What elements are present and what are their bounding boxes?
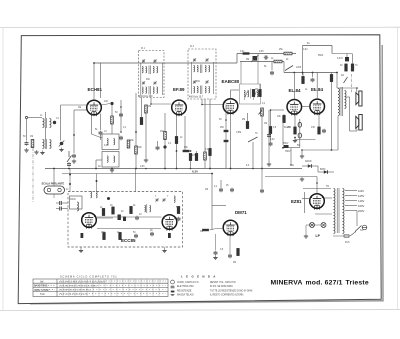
legend text rows bbox=[177, 281, 252, 297]
wire FM gnd left bbox=[80, 247, 82, 249]
resistor tone v1 bbox=[259, 89, 262, 96]
PT right winding bbox=[343, 189, 345, 198]
ground gang bbox=[59, 148, 63, 152]
capacitor under DM71 b bbox=[228, 254, 232, 259]
wire dipole join bbox=[63, 202, 68, 204]
wire EF89 pin drop bbox=[184, 116, 186, 151]
ground cath1 bbox=[293, 139, 297, 143]
tuning gang cap dark bbox=[60, 142, 64, 146]
table column ticks bbox=[63, 279, 159, 297]
dial scale stadium bbox=[44, 186, 65, 194]
tube EL84 second bbox=[310, 99, 325, 115]
OT core bbox=[340, 87, 342, 116]
wire dm caps bbox=[220, 180, 222, 188]
capacitor det 2 bbox=[224, 140, 229, 142]
wire IF1 foot bbox=[157, 141, 159, 146]
capacitor el84 g dark bbox=[267, 133, 271, 138]
capacitor EL84 cath 2 bbox=[322, 129, 326, 134]
det trimmer diag 1 bbox=[244, 91, 248, 100]
det trimmer diag 2 bbox=[253, 91, 257, 100]
IF2 core top bbox=[200, 65, 202, 74]
tube DM71 bbox=[223, 220, 238, 236]
wire FM gnd right bbox=[164, 247, 166, 249]
wire grid res bbox=[210, 229, 224, 231]
IF1 top coils bbox=[142, 66, 143, 73]
FM core bbox=[146, 204, 148, 213]
IF1 trimmer right bbox=[153, 59, 156, 63]
wire EF89 cath down bbox=[164, 113, 166, 169]
valve data table frame bbox=[33, 279, 168, 297]
OT secondary winding bbox=[345, 91, 347, 100]
svg-text:1M: 1M bbox=[200, 231, 203, 233]
wire diode step bbox=[317, 166, 319, 172]
pilot lamp 1 bbox=[310, 223, 315, 228]
wire PT bottom bbox=[333, 235, 350, 237]
dial lamp right bbox=[58, 188, 61, 191]
svg-text:1M: 1M bbox=[78, 107, 81, 109]
wire EZ81 heater rail bbox=[303, 188, 331, 190]
IF2 core bottom bbox=[200, 86, 202, 95]
wire cath2 bbox=[318, 114, 320, 127]
svg-text:140V: 140V bbox=[358, 199, 364, 203]
resistor under DM71 bbox=[237, 248, 240, 255]
svg-text:2 6 4 1 8 2 6 3: 2 6 4 1 8 2 6 3 2 5 8 1 5 6 2 8 bbox=[59, 294, 88, 296]
FM osc coil bbox=[174, 196, 175, 203]
svg-text:1M: 1M bbox=[30, 136, 33, 138]
ground el84g bbox=[267, 162, 271, 166]
capacitor switch bbox=[67, 162, 71, 167]
node B+ OT bbox=[331, 149, 333, 151]
wire FM feed x96 bbox=[96, 174, 98, 192]
PT left winding bbox=[334, 189, 336, 198]
wire screen feed up bbox=[100, 63, 102, 98]
wire dipole2 bbox=[56, 208, 58, 210]
svg-text:1,1 8 250 2 96 4 1: 1,1 8 250 2 96 4 1 2 8 70 6 2 4 1 245 6 bbox=[59, 286, 97, 288]
capacitor tweeter dark bbox=[345, 57, 349, 61]
wire switch stub bbox=[283, 62, 285, 73]
wire gang vertical bbox=[60, 105, 62, 141]
node FM feed a bbox=[69, 174, 71, 176]
wire EF89 g2 down bbox=[176, 115, 178, 169]
capacitor FM c1 dark bbox=[107, 197, 110, 200]
wire psu down bbox=[290, 148, 292, 166]
wire cath link bbox=[295, 139, 316, 141]
wire filter h bbox=[287, 147, 300, 149]
svg-text:RESIST. TOL. ±20% P.W.: RESIST. TOL. ±20% P.W. bbox=[210, 282, 236, 284]
table row labels bbox=[34, 281, 49, 297]
wire IF2 grid link bbox=[202, 104, 223, 106]
IF2 mid wires bbox=[191, 62, 193, 94]
svg-text:2M: 2M bbox=[242, 119, 245, 121]
resistor osc anode bbox=[135, 146, 138, 154]
PT taps bbox=[345, 191, 357, 211]
svg-text:RESISTENZE: RESISTENZE bbox=[177, 290, 192, 292]
node dots screen rail bbox=[302, 72, 304, 74]
capacitor IF1 foot dark bbox=[156, 146, 160, 151]
wire mains drop bbox=[356, 211, 358, 227]
wire EZ81 left vert bbox=[304, 192, 306, 213]
osc box1 coil b bbox=[114, 138, 115, 145]
detector coil right bbox=[254, 90, 255, 97]
svg-text:0,047: 0,047 bbox=[337, 58, 343, 60]
IF1 trimmer bot left bbox=[142, 81, 145, 85]
wire spk upper in bbox=[356, 88, 358, 92]
ground under DM71 bbox=[213, 256, 217, 260]
wire screen rail bbox=[284, 72, 337, 74]
wire EL84 1 plate up bbox=[293, 73, 295, 100]
svg-text:6,3 0,3 90 1,2 85 6 2 0: 6,3 0,3 90 1,2 85 6 2 0,5 6 94 7 3 1,6 0… bbox=[59, 281, 105, 283]
svg-text:0,5M: 0,5M bbox=[236, 132, 241, 134]
resistor AF 1 bbox=[269, 126, 272, 133]
wire IF1 sec to grid bbox=[150, 98, 152, 105]
wave switch vertical bbox=[68, 151, 70, 157]
resistor screen drop 1 bbox=[302, 76, 305, 83]
legend res symbol bbox=[171, 291, 175, 293]
chassis ground bus bbox=[45, 168, 302, 170]
wire screen gnd bbox=[100, 135, 102, 140]
svg-text:EL.84: EL.84 bbox=[289, 88, 302, 93]
svg-text:ELETTROLITICI: ELETTROLITICI bbox=[177, 286, 194, 288]
tone pot arrow bbox=[251, 55, 259, 62]
svg-text:2M: 2M bbox=[233, 262, 236, 264]
wire filter vert bbox=[299, 119, 301, 148]
ground aerial res bbox=[34, 150, 38, 154]
resistor AGC EF89 bbox=[145, 105, 148, 113]
speaker lower cone bbox=[356, 116, 359, 128]
wire lamp drop bbox=[305, 225, 307, 234]
svg-text:ECC85: ECC85 bbox=[121, 238, 136, 243]
svg-text:2M: 2M bbox=[246, 59, 249, 61]
speaker upper cone bbox=[356, 93, 359, 105]
wire tweeter r2 bbox=[352, 54, 354, 64]
resistor aerial bbox=[31, 140, 34, 148]
svg-text:4Ω: 4Ω bbox=[341, 75, 344, 77]
resistor EF89 screen bbox=[175, 136, 178, 143]
svg-text:0,05: 0,05 bbox=[104, 145, 109, 147]
osc box2 coil b bbox=[114, 156, 115, 163]
svg-text:MINERVAmod. 627/1Trieste: MINERVAmod. 627/1Trieste bbox=[271, 279, 369, 286]
wire OT top bar bbox=[337, 87, 357, 89]
wire tweeter drop bbox=[346, 54, 348, 58]
svg-text:LP: LP bbox=[316, 234, 321, 238]
wire EABC80 down bbox=[230, 114, 232, 169]
wire EL84 2 plate up bbox=[316, 73, 318, 100]
svg-text:SCHEMA CICLO COMPLETO 761: SCHEMA CICLO COMPLETO 761 bbox=[60, 275, 117, 279]
capacitor FM c2 bbox=[135, 216, 139, 221]
ground AVC foot bbox=[72, 159, 76, 163]
resistor IF2 foot bbox=[209, 148, 212, 155]
wire EZ81 bottom seg bbox=[315, 213, 332, 215]
aerial coil pair 2 bbox=[43, 140, 45, 149]
capacitor tone a bbox=[264, 56, 269, 60]
svg-text:0,02: 0,02 bbox=[270, 139, 275, 141]
capacitor under DM71 bbox=[214, 251, 218, 256]
wire FM feed x70 bbox=[69, 169, 71, 192]
node EF89 g2 bbox=[176, 150, 178, 152]
wire screen x100 down bbox=[100, 114, 102, 131]
resistor osc feed bbox=[127, 140, 130, 148]
gang dash-dot link bbox=[32, 148, 34, 202]
svg-text:110V: 110V bbox=[358, 189, 364, 193]
page scan edge left bbox=[2, 28, 4, 311]
wire FM box feed up bbox=[135, 169, 137, 192]
svg-text:220V: 220V bbox=[358, 209, 364, 213]
volume potentiometer bbox=[261, 108, 264, 116]
wire dipole join2 bbox=[63, 208, 68, 210]
mains switch bbox=[355, 226, 362, 232]
capacitor det 1 bbox=[224, 130, 229, 132]
node FM feed b bbox=[69, 183, 71, 185]
wire osc grid bbox=[102, 104, 111, 106]
wire DM71 branch bbox=[212, 205, 226, 207]
tube EL84 first bbox=[287, 100, 302, 116]
node volume bus bbox=[261, 168, 263, 170]
wire EZ81 filament stub bbox=[302, 198, 311, 200]
wire diode row2 bbox=[318, 171, 334, 173]
switch tweeter bbox=[344, 77, 348, 83]
tube EF89 bbox=[172, 100, 187, 116]
OT primary winding bbox=[338, 89, 340, 98]
FM tuner dashed box bbox=[68, 192, 183, 248]
FM dipole input caps bbox=[58, 201, 63, 205]
mains plug pins bbox=[363, 227, 367, 229]
resistor IF2 foot b bbox=[204, 152, 207, 160]
wire cath1 bbox=[294, 115, 296, 127]
node osc vertical bbox=[135, 131, 137, 133]
wire B+ top right bbox=[303, 45, 333, 47]
ground aerial coil bbox=[40, 151, 44, 155]
svg-text:1M: 1M bbox=[148, 106, 151, 108]
resistor IF feed bbox=[140, 117, 143, 124]
wire dial drop bbox=[53, 169, 55, 187]
wire psu v1 bbox=[282, 120, 284, 145]
ground FM right bbox=[162, 249, 166, 253]
wire padder vert bbox=[120, 100, 122, 132]
resistor FM r3 bbox=[130, 206, 133, 213]
svg-text:1M: 1M bbox=[205, 189, 208, 191]
svg-text:L E G E N D A: L E G E N D A bbox=[181, 275, 217, 279]
IF1 mid wires bbox=[140, 63, 142, 95]
legend tube symbol bbox=[171, 280, 175, 284]
resistor screen feed horizontal bbox=[274, 60, 282, 63]
svg-text:IL RESTO CORRENTE ALTERN.: IL RESTO CORRENTE ALTERN. bbox=[210, 294, 244, 297]
resistor decoup 2 bbox=[195, 153, 198, 160]
svg-text:6,3V: 6,3V bbox=[192, 170, 198, 174]
svg-text:COND. CARTA P.V.C.: COND. CARTA P.V.C. bbox=[177, 281, 200, 284]
wire EABC80 det top bbox=[230, 90, 232, 99]
resistor decoup 1 bbox=[189, 153, 192, 160]
wire AF up bbox=[270, 110, 272, 127]
IF2 top coils bbox=[194, 65, 195, 72]
wire FM grid coupling bbox=[97, 216, 162, 218]
wire screen drops bbox=[302, 73, 304, 77]
resistor tone v2 bbox=[252, 89, 255, 96]
wire IF2 can down b bbox=[204, 99, 206, 169]
svg-text:125V: 125V bbox=[358, 194, 364, 198]
IF2 trimmer left bbox=[193, 58, 196, 62]
wire grid line EF89 bbox=[151, 103, 171, 105]
wire B+ corner down bbox=[331, 46, 333, 54]
svg-text:0,01: 0,01 bbox=[240, 51, 245, 53]
aerial terminal bbox=[25, 116, 27, 118]
wire det caps bbox=[225, 105, 227, 130]
svg-text:DM71: DM71 bbox=[235, 210, 247, 215]
capacitor tone b bbox=[270, 71, 274, 76]
node switch bbox=[68, 168, 70, 170]
svg-text:B250: B250 bbox=[320, 169, 326, 171]
capacitor aerial bbox=[25, 141, 29, 146]
PT core bbox=[336, 188, 338, 233]
wire grid stopper bbox=[283, 114, 285, 116]
wire osc grid down bbox=[111, 105, 113, 116]
capacitor screen 2 bbox=[311, 78, 315, 83]
wire det cap link bbox=[225, 132, 227, 139]
wire EZ81 B+ left bbox=[265, 176, 317, 178]
svg-text:460 Kc/s 10,7: 460 Kc/s 10,7 bbox=[189, 97, 204, 99]
wire tweeter top bbox=[332, 53, 352, 55]
wire diode row bbox=[302, 165, 318, 167]
svg-text:1M: 1M bbox=[255, 89, 258, 91]
svg-text:1200: 1200 bbox=[296, 67, 302, 69]
switch B+ diagonal bbox=[285, 66, 293, 71]
svg-text:0,4 2 88 5 3 8 2: 0,4 2 88 5 3 8 2 6 4 8 3 5 2 3 6 4 bbox=[59, 290, 91, 292]
wire aerial top bbox=[28, 117, 43, 119]
wire dm71 bot bbox=[229, 234, 231, 254]
wire osc bottom bbox=[96, 159, 102, 161]
resistor FM b1 bbox=[103, 232, 106, 239]
wire decoup to bus bbox=[190, 161, 192, 169]
svg-text:FUS: FUS bbox=[345, 242, 350, 244]
FM dipole input caps 2 bbox=[58, 207, 63, 211]
wire IF feed bbox=[141, 98, 143, 118]
capacitor FM b3 bbox=[134, 234, 138, 239]
capacitor screen ECH81 bbox=[99, 131, 103, 136]
PT tap labels bbox=[358, 189, 364, 213]
FM top coil b bbox=[96, 191, 97, 198]
wire IF2 can down bbox=[209, 99, 211, 169]
legend cap symbol bbox=[171, 286, 175, 288]
wire det stub top bbox=[240, 62, 242, 85]
ground psu mid bbox=[300, 177, 304, 181]
resistor B+ dropper bbox=[330, 74, 333, 81]
wire screen drops2 bbox=[312, 73, 314, 78]
FM input coil bbox=[77, 202, 79, 211]
wire spk2 bottom in bbox=[350, 130, 358, 132]
wire under DM71 a bbox=[215, 234, 217, 250]
wire aerial vert bbox=[26, 119, 28, 141]
wire det top link bbox=[231, 89, 240, 91]
wire decoup2 up bbox=[196, 151, 198, 153]
wire IF2 bot down bbox=[201, 99, 203, 105]
choke EF89 horizontal bbox=[183, 150, 190, 152]
wire lamps link bbox=[306, 224, 321, 226]
wire DM71 vertical bbox=[211, 174, 213, 231]
IF2 bottom coils bbox=[194, 86, 195, 93]
capacitor AF coupling bbox=[269, 142, 273, 147]
FM mid coil pair bbox=[145, 205, 146, 212]
wire osc long vertical bbox=[135, 93, 137, 169]
svg-text:SCALA PARLANTE: SCALA PARLANTE bbox=[42, 182, 65, 185]
wire OT bottom down bbox=[337, 116, 339, 150]
svg-text:Tubi: Tubi bbox=[40, 293, 45, 296]
ground osc bbox=[110, 168, 114, 172]
fuse PT bbox=[344, 235, 349, 237]
detector coil left bbox=[244, 90, 245, 97]
resistor FM r2 bbox=[112, 207, 115, 214]
frame shadow bbox=[30, 45, 383, 304]
IF1 trimmer left bbox=[142, 59, 145, 63]
capacitor FM r4b bbox=[177, 217, 181, 222]
node FM feed c bbox=[96, 180, 98, 182]
wire AF link bbox=[270, 134, 272, 142]
osc box1 coil a bbox=[107, 138, 108, 145]
svg-text:0,05: 0,05 bbox=[140, 166, 145, 168]
node plate rail bbox=[93, 62, 95, 64]
diode rect 1 bbox=[308, 164, 312, 168]
IF2 trimmer right bbox=[205, 58, 208, 62]
capacitor tracking bbox=[119, 136, 123, 141]
mains plug outer bbox=[362, 225, 367, 230]
capacitor osc grid dark bbox=[110, 102, 113, 105]
wire switch drop bbox=[252, 142, 254, 169]
wire det caps lower bbox=[225, 142, 227, 168]
svg-text:TUTTE LE RESISTENZE SONO IN OH: TUTTE LE RESISTENZE SONO IN OHM bbox=[210, 290, 252, 292]
wire osc bottom drop bbox=[95, 160, 97, 169]
wire OT sec to spk vertical bbox=[349, 97, 351, 131]
svg-text:TR: TR bbox=[326, 186, 329, 188]
IF can 1 dashed box bbox=[139, 51, 165, 98]
wire vertical feed x302 bbox=[302, 46, 304, 76]
svg-text:IN P.F. SE NON INDIC.: IN P.F. SE NON INDIC. bbox=[210, 286, 234, 288]
svg-text:350V: 350V bbox=[283, 143, 289, 145]
wire dial down bbox=[53, 194, 55, 198]
wire EL84 link bbox=[302, 106, 310, 108]
svg-text:1M: 1M bbox=[264, 123, 267, 125]
node AVC bbox=[73, 134, 75, 136]
osc coil box 2 bbox=[102, 152, 119, 168]
ground OT bbox=[300, 154, 304, 158]
resistor EF89 cathode bbox=[164, 132, 167, 140]
heater bus bbox=[62, 173, 213, 175]
wire dipole bbox=[56, 202, 58, 204]
wire FM h218 bbox=[97, 217, 113, 219]
node heater bbox=[95, 168, 97, 170]
capacitor AVC foot bbox=[72, 154, 76, 159]
tube EABC80 bbox=[223, 99, 238, 115]
IF2 trimmer bot left bbox=[193, 80, 196, 84]
trimmer dark dot bbox=[53, 121, 56, 124]
electrolytic dark bar bbox=[284, 145, 289, 148]
gang arrow bbox=[59, 141, 65, 147]
wire spk2 bottom stub bbox=[356, 129, 358, 131]
IF1 core top bbox=[148, 66, 150, 75]
IF1 core bottom bbox=[148, 86, 150, 95]
resistor EL84 cath 1 bbox=[294, 127, 297, 134]
junction dots bus bbox=[53, 72, 358, 184]
FM mid cluster dark a bbox=[118, 215, 121, 221]
wire tone rail joins bbox=[236, 54, 238, 64]
FM mid cluster dark b bbox=[123, 217, 126, 222]
wire coil link down bbox=[45, 128, 47, 140]
aerial core 2 bbox=[44, 139, 46, 149]
wire EL84g vert x269 bbox=[268, 110, 270, 162]
FM input filter sub-box bbox=[70, 196, 83, 209]
svg-text:160V: 160V bbox=[358, 204, 364, 208]
IF2 trimmer bot right bbox=[205, 80, 208, 84]
node choke right bbox=[190, 150, 192, 152]
IF1 trimmer bot right bbox=[153, 81, 156, 85]
resistor grid stopper bbox=[283, 115, 286, 122]
